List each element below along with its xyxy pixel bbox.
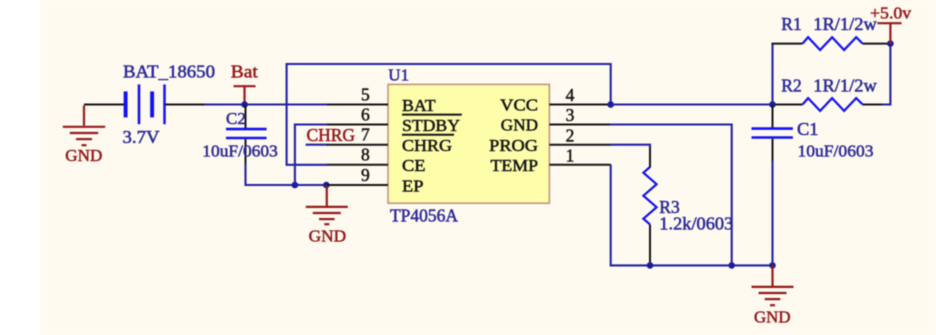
wire TEMP to bottom rail [611, 165, 773, 266]
ground symbol (battery negative) [63, 106, 105, 146]
pin 8 CE [327, 145, 426, 176]
svg-text:R2: R2 [781, 75, 801, 95]
svg-text:EP: EP [402, 176, 424, 195]
svg-text:9: 9 [361, 165, 370, 185]
wire battery positive lead [165, 104, 205, 106]
svg-text:5: 5 [361, 84, 370, 104]
junction VCC [607, 101, 614, 108]
svg-text:CHRG: CHRG [307, 125, 356, 145]
junction +5.0v [887, 40, 894, 47]
svg-text:10uF/0603: 10uF/0603 [798, 142, 874, 161]
svg-text:1R/1/2w: 1R/1/2w [813, 75, 877, 95]
pin 2 PROG [489, 125, 611, 155]
pin 3 GND [501, 105, 611, 135]
resistor R3 [643, 147, 656, 265]
pin 7 CHRG [327, 125, 454, 156]
resistor R1 [772, 37, 890, 50]
capacitor C1 [752, 106, 793, 163]
svg-text:4: 4 [566, 85, 575, 105]
ground symbol (output) [752, 265, 794, 305]
svg-text:U1: U1 [388, 65, 409, 84]
svg-text:GND: GND [309, 226, 347, 245]
wire R1 right to R2 right [882, 44, 890, 105]
svg-text:1: 1 [566, 145, 575, 165]
pin 9 EP [327, 165, 424, 196]
wire C1 to bottom rail [771, 161, 773, 265]
junction bottom right [769, 262, 776, 269]
svg-text:VCC: VCC [500, 96, 538, 115]
svg-text:R1: R1 [781, 14, 801, 34]
junction ground stem (EP row) [323, 182, 330, 189]
pin 4 VCC [500, 85, 611, 115]
wire R1 left to R2 left [771, 44, 773, 105]
junction R3 bottom [647, 262, 654, 269]
svg-text:TEMP: TEMP [491, 156, 539, 175]
battery BAT_18650 [126, 84, 165, 124]
svg-text:PROG: PROG [489, 136, 538, 155]
svg-text:C1: C1 [797, 119, 819, 139]
svg-text:BAT_18650: BAT_18650 [123, 62, 215, 82]
svg-text:1R/1/2w: 1R/1/2w [813, 14, 877, 34]
wire CHRG stub [306, 144, 328, 146]
svg-text:TP4056A: TP4056A [390, 206, 458, 226]
svg-text:10uF/0603: 10uF/0603 [202, 142, 277, 161]
svg-text:GND: GND [65, 146, 102, 165]
wire C2 bottom to EP row [246, 164, 329, 186]
resistor R2 [776, 98, 883, 111]
svg-text:STDBY: STDBY [402, 116, 460, 135]
svg-text:1.2k/0603: 1.2k/0603 [659, 213, 733, 233]
wire VCC to R2 left [611, 103, 773, 105]
wire battery to BAT pin [205, 103, 329, 105]
wire battery negative lead [84, 104, 125, 106]
svg-text:GND: GND [754, 308, 791, 327]
pin 6 STDBY [327, 104, 462, 135]
svg-text:+5.0v: +5.0v [870, 4, 912, 23]
svg-text:Bat: Bat [231, 62, 258, 82]
svg-text:CHRG: CHRG [402, 136, 452, 155]
wire STDBY to EP row [295, 125, 328, 186]
pin 1 TEMP [491, 145, 612, 175]
svg-text:C2: C2 [226, 109, 246, 128]
ground symbol (EP) [306, 185, 348, 224]
wire PROG to R3 [610, 145, 650, 148]
svg-text:GND: GND [501, 116, 538, 135]
IC U1 TP4056A body [388, 84, 549, 203]
junction EP row [292, 182, 299, 189]
svg-text:3: 3 [566, 105, 575, 125]
svg-text:7: 7 [361, 125, 370, 145]
power port +5.0v [877, 23, 901, 43]
wire GND pin to bottom rail [610, 125, 732, 266]
svg-text:6: 6 [361, 104, 370, 124]
wire CE to top rail to VCC junction [287, 64, 611, 165]
capacitor C2 [226, 106, 267, 165]
junction GND wire bottom [728, 262, 735, 269]
svg-text:BAT: BAT [402, 96, 436, 115]
svg-text:CE: CE [402, 156, 426, 175]
power port Bat [234, 86, 256, 104]
svg-text:8: 8 [361, 145, 370, 165]
junction at Bat [241, 101, 248, 108]
pin 5 BAT [327, 84, 436, 115]
svg-text:3.7V: 3.7V [123, 127, 160, 147]
svg-text:2: 2 [566, 125, 575, 145]
junction R2 left [769, 101, 776, 108]
